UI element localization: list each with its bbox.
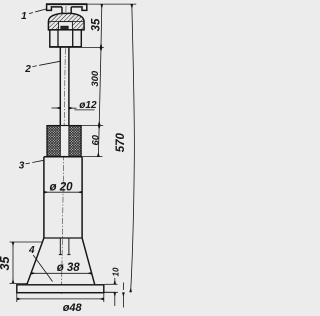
- cone left edge: [27, 238, 44, 285]
- svg-text:4: 4: [28, 245, 35, 256]
- rubber block: [47, 126, 81, 157]
- base plate: [17, 285, 104, 293]
- 570 overall dimension: [131, 4, 135, 292]
- cone right edge: [82, 238, 95, 285]
- dia 12 dimension: [52, 108, 95, 110]
- cone junction line: [44, 237, 82, 239]
- guide block bore: [58, 30, 73, 47]
- svg-text:ø 20: ø 20: [49, 182, 73, 194]
- 35 cone height dimension: [10, 242, 43, 283]
- 300 rod length dimension: [99, 48, 101, 126]
- handle dome hatched body: [48, 13, 84, 30]
- label 3 leader: [26, 160, 45, 164]
- handle stem: [62, 7, 71, 13]
- striker cylinder: [44, 157, 82, 238]
- label 4 leader: [33, 255, 52, 282]
- svg-text:60: 60: [90, 134, 101, 145]
- svg-text:ø48: ø48: [63, 302, 83, 314]
- nut in slot: [61, 26, 68, 30]
- rod shaft: [60, 47, 69, 126]
- svg-text:35: 35: [91, 18, 103, 31]
- cylinder top edge: [44, 156, 82, 158]
- handle cap right lip: [71, 3, 87, 10]
- centerline: [62, 6, 67, 294]
- dia 48 dimension: [17, 293, 104, 302]
- svg-text:ø 38: ø 38: [57, 262, 81, 274]
- svg-text:570: 570: [115, 133, 127, 153]
- handle cap top bar: [46, 3, 87, 5]
- label 1 leader: [29, 9, 47, 14]
- 35 handle height dimension: [100, 4, 103, 47]
- handle cap left lip: [47, 3, 62, 10]
- label 2 leader: [32, 61, 60, 66]
- handle inner slot: [59, 22, 73, 30]
- svg-text:2: 2: [24, 64, 31, 75]
- 60 rubber block dimension: [97, 125, 100, 156]
- 10 plate thickness dimension: [105, 278, 119, 306]
- guide block bottom edge: [49, 46, 82, 48]
- guide block: [50, 30, 82, 47]
- stray arrow line near 570 end: [122, 292, 124, 307]
- bottom extension line: [105, 291, 115, 293]
- dia 38 dimension: [31, 272, 92, 274]
- svg-text:35: 35: [0, 256, 12, 271]
- svg-text:300: 300: [90, 70, 101, 87]
- dia 20 dimension: [44, 191, 82, 193]
- inner bore hidden lines: [59, 238, 71, 255]
- svg-text:1: 1: [21, 11, 27, 22]
- rod channel through rubber block: [60, 126, 69, 157]
- handle dome shoulder line: [48, 21, 84, 23]
- svg-text:ø12: ø12: [79, 100, 97, 111]
- svg-text:3: 3: [19, 160, 25, 171]
- svg-text:10: 10: [112, 267, 121, 276]
- right extension lines: [81, 4, 136, 157]
